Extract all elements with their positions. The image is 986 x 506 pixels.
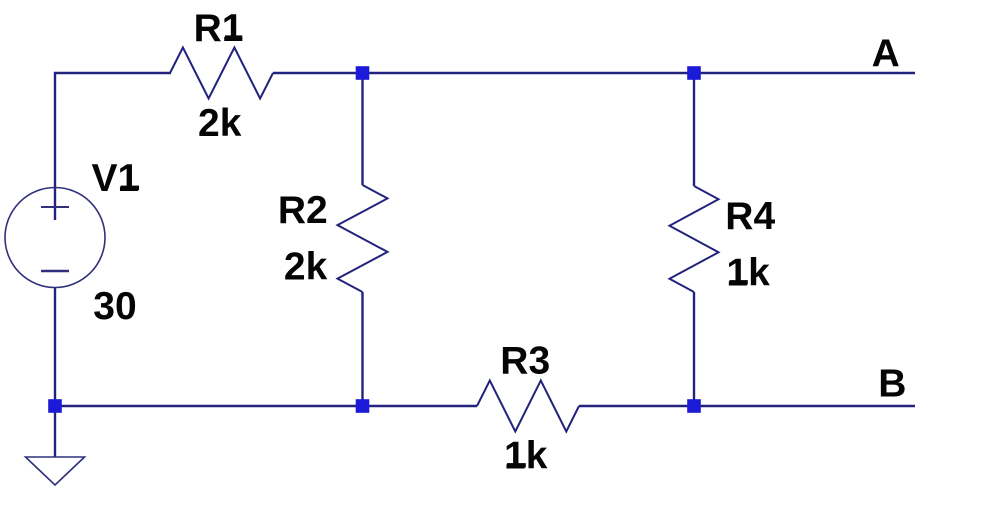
wire bottom rail right of R3 to node B end — [579, 405, 915, 407]
wire top-left horizontal from V1 to R1 — [54, 72, 171, 74]
wire R4 branch lower vertical — [693, 292, 695, 406]
svg-text:30: 30 — [93, 285, 136, 328]
label R3 value '1' foot serif — [507, 463, 526, 467]
svg-text:2k: 2k — [284, 246, 328, 289]
wire R4 branch upper vertical — [693, 73, 695, 186]
wire bottom rail left of R3 — [55, 405, 477, 407]
node junction top R4 — [687, 66, 701, 80]
V1 plus sign — [41, 206, 69, 208]
resistor R1 — [170, 48, 273, 99]
voltage source V1 circle — [5, 188, 105, 288]
wire left vertical from V1 bottom to bottom rail — [54, 288, 56, 406]
label R4 value '1' foot serif — [729, 280, 747, 284]
svg-text:A: A — [872, 32, 900, 75]
wire left vertical from top wire into V1 plus — [54, 72, 56, 220]
svg-text:R1: R1 — [194, 7, 244, 50]
wire R2 branch upper vertical — [361, 73, 363, 185]
node junction bottom R2 — [356, 399, 370, 413]
V1 minus sign — [41, 270, 69, 273]
svg-text:1k: 1k — [504, 435, 548, 478]
label R1 '1' foot serif — [225, 35, 242, 39]
svg-text:1k: 1k — [726, 252, 770, 295]
svg-text:R4: R4 — [725, 195, 775, 238]
label V1 '1' foot serif — [121, 186, 140, 190]
svg-text:R2: R2 — [278, 189, 328, 232]
svg-text:B: B — [878, 362, 906, 405]
wire ground stub — [54, 406, 56, 457]
resistor R2 — [338, 185, 388, 292]
node junction bottom left ground — [48, 399, 62, 413]
svg-text:R3: R3 — [500, 340, 550, 383]
node junction top R2 — [356, 66, 370, 80]
wire top horizontal from R1 to node A end — [273, 72, 915, 74]
wire R2 branch lower vertical — [361, 292, 363, 406]
svg-text:V1: V1 — [92, 157, 140, 200]
node junction bottom R4 — [687, 399, 701, 413]
ground — [26, 457, 85, 485]
svg-text:2k: 2k — [198, 102, 242, 145]
resistor R3 — [477, 381, 579, 432]
resistor R4 — [670, 186, 719, 292]
